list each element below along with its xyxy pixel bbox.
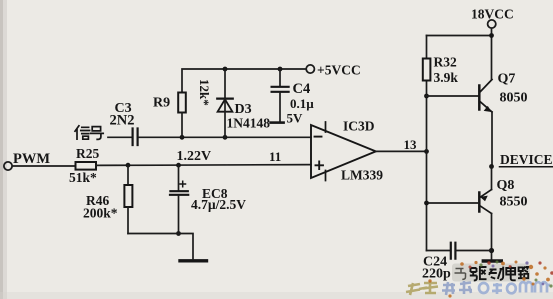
label 12k* rotated xyxy=(197,79,212,106)
wire op-amp output xyxy=(376,150,427,152)
label IC3D xyxy=(343,119,375,134)
node junction D3 top on rail xyxy=(223,67,228,72)
label C3 xyxy=(115,101,132,116)
label 3.9k xyxy=(434,70,459,85)
wire DEVICE to Q8 emitter xyxy=(491,167,493,190)
label DEVICE xyxy=(500,152,553,167)
label R32 xyxy=(434,55,457,70)
label EC8 xyxy=(202,186,228,201)
node junction Q8 base bus xyxy=(424,201,429,206)
svg-text:2N2: 2N2 xyxy=(110,113,135,129)
label C4 xyxy=(293,81,311,97)
resistor R32 xyxy=(423,59,431,81)
wire PWM to R25 xyxy=(12,165,75,167)
label C24 xyxy=(423,255,447,270)
transistor Q7 xyxy=(479,80,492,113)
wire C4 bottom lead xyxy=(279,93,281,122)
label pin 11 xyxy=(269,149,281,164)
node junction EC8 and R46 bottom xyxy=(176,231,181,236)
svg-text:4.7µ/2.5V: 4.7µ/2.5V xyxy=(191,197,246,212)
node junction D3 bottom xyxy=(223,135,228,140)
label LM339 xyxy=(341,168,383,183)
+5VCC terminal xyxy=(306,65,314,73)
diode D3 xyxy=(217,99,232,112)
wire R46 top lead xyxy=(127,165,129,185)
svg-text:0.1µ: 0.1µ xyxy=(290,96,314,111)
svg-text:IC3D: IC3D xyxy=(343,119,375,134)
label 4.7u/2.5V xyxy=(191,197,246,212)
svg-text:Q7: Q7 xyxy=(498,72,516,87)
wire Q7 emitter to DEVICE node xyxy=(491,112,493,167)
label R46 xyxy=(86,193,109,208)
wire R25 to op-amp + input xyxy=(96,164,311,167)
ground left xyxy=(180,259,207,262)
label D3 xyxy=(235,102,252,117)
svg-text:1.22V: 1.22V xyxy=(177,149,212,164)
wire R9 bottom lead xyxy=(181,113,183,138)
capacitor C24 xyxy=(451,243,456,259)
label 200k* xyxy=(83,206,118,221)
node junction rail and collector branch xyxy=(489,33,494,38)
wire bus corner to C24 xyxy=(427,250,450,252)
label 220p xyxy=(422,267,451,282)
node junction output to base bus xyxy=(424,149,429,154)
PWM input terminal xyxy=(4,162,12,170)
svg-text:R25: R25 xyxy=(76,146,99,161)
label R25 xyxy=(76,146,99,161)
node junction R46 on PWM line xyxy=(126,163,131,168)
svg-text:R32: R32 xyxy=(434,55,457,70)
svg-text:+5VCC: +5VCC xyxy=(317,63,361,78)
svg-text:C4: C4 xyxy=(293,81,311,97)
label pin 13 xyxy=(404,137,418,152)
node junction R32 bottom base bus xyxy=(424,94,429,99)
transistor Q8 xyxy=(479,190,491,214)
node junction EC8 on PWM line xyxy=(176,163,181,168)
svg-text:5V: 5V xyxy=(287,111,304,126)
wire D3 top lead xyxy=(224,69,226,98)
label Q8 xyxy=(497,178,515,193)
svg-text:13: 13 xyxy=(404,137,418,152)
label R9 xyxy=(153,96,170,111)
svg-text:12k*: 12k* xyxy=(197,79,212,106)
label +5VCC xyxy=(317,63,361,78)
svg-text:220p: 220p xyxy=(422,267,451,282)
node junction R9 bottom xyxy=(180,135,185,140)
wire C3 to op-amp minus input xyxy=(139,136,311,138)
label 2N2 xyxy=(110,113,135,129)
wire top rail 18VCC xyxy=(427,28,492,79)
node junction C4 top on rail xyxy=(278,67,283,72)
node junction C24 right xyxy=(489,248,494,253)
svg-text:DEVICE: DEVICE xyxy=(500,152,553,167)
wire R46 bottom lead xyxy=(127,207,129,234)
C4 bottom termination bar xyxy=(271,121,284,124)
label PWM xyxy=(13,151,50,167)
svg-text:1N4148: 1N4148 xyxy=(227,116,271,131)
capacitor EC8 polarity plus xyxy=(180,181,186,187)
label 18VCC xyxy=(471,7,514,22)
18VCC terminal xyxy=(488,20,496,28)
svg-text:11: 11 xyxy=(269,149,281,164)
svg-text:3.9k: 3.9k xyxy=(434,70,459,85)
label 驱动电路 drive circuit xyxy=(452,264,530,282)
svg-text:8550: 8550 xyxy=(500,195,528,210)
svg-text:8050: 8050 xyxy=(500,91,528,106)
wire EC8 top lead xyxy=(178,165,180,190)
wire left branch vertical bus xyxy=(426,36,428,251)
label 51k* xyxy=(69,170,97,185)
label 1.22V node voltage xyxy=(177,149,212,164)
label Q7 xyxy=(498,72,516,87)
wire Q8 base xyxy=(427,202,479,204)
wire R9 top lead and +5V rail xyxy=(182,69,306,93)
wire D3 bottom lead xyxy=(224,99,226,138)
resistor R9 xyxy=(178,93,186,113)
svg-text:Q8: Q8 xyxy=(497,178,515,193)
svg-text:51k*: 51k* xyxy=(69,170,97,185)
svg-text:18VCC: 18VCC xyxy=(471,7,514,22)
node junction DEVICE xyxy=(489,164,494,169)
label 8050 xyxy=(500,91,528,106)
resistor R25 xyxy=(76,162,97,170)
label 1N4148 xyxy=(227,116,271,131)
label 5V xyxy=(287,111,304,126)
wire C24 to collector branch xyxy=(457,250,492,252)
svg-text:LM339: LM339 xyxy=(341,168,383,183)
capacitor C4 xyxy=(272,87,289,92)
label 0.1u xyxy=(290,96,314,111)
capacitor C3 xyxy=(133,129,138,146)
ground right xyxy=(483,259,501,262)
watermark stylized glyphs xyxy=(406,261,553,298)
label signal 信号 xyxy=(75,126,103,140)
label 8550 xyxy=(500,195,528,210)
resistor R46 xyxy=(124,185,132,207)
wire signal to C3 xyxy=(108,136,132,138)
op-amp U1 IC3D triangle xyxy=(311,122,376,181)
svg-text:200k*: 200k* xyxy=(83,206,118,221)
svg-text:PWM: PWM xyxy=(13,151,50,167)
wire Q7 base xyxy=(427,95,479,97)
capacitor EC8 xyxy=(170,191,188,195)
wire EC8 bottom lead xyxy=(178,196,180,234)
wire Q8 collector down xyxy=(491,214,493,260)
wire bottom bus to ground xyxy=(128,234,193,259)
svg-text:R9: R9 xyxy=(153,96,170,111)
wire C4 top lead xyxy=(279,69,281,86)
